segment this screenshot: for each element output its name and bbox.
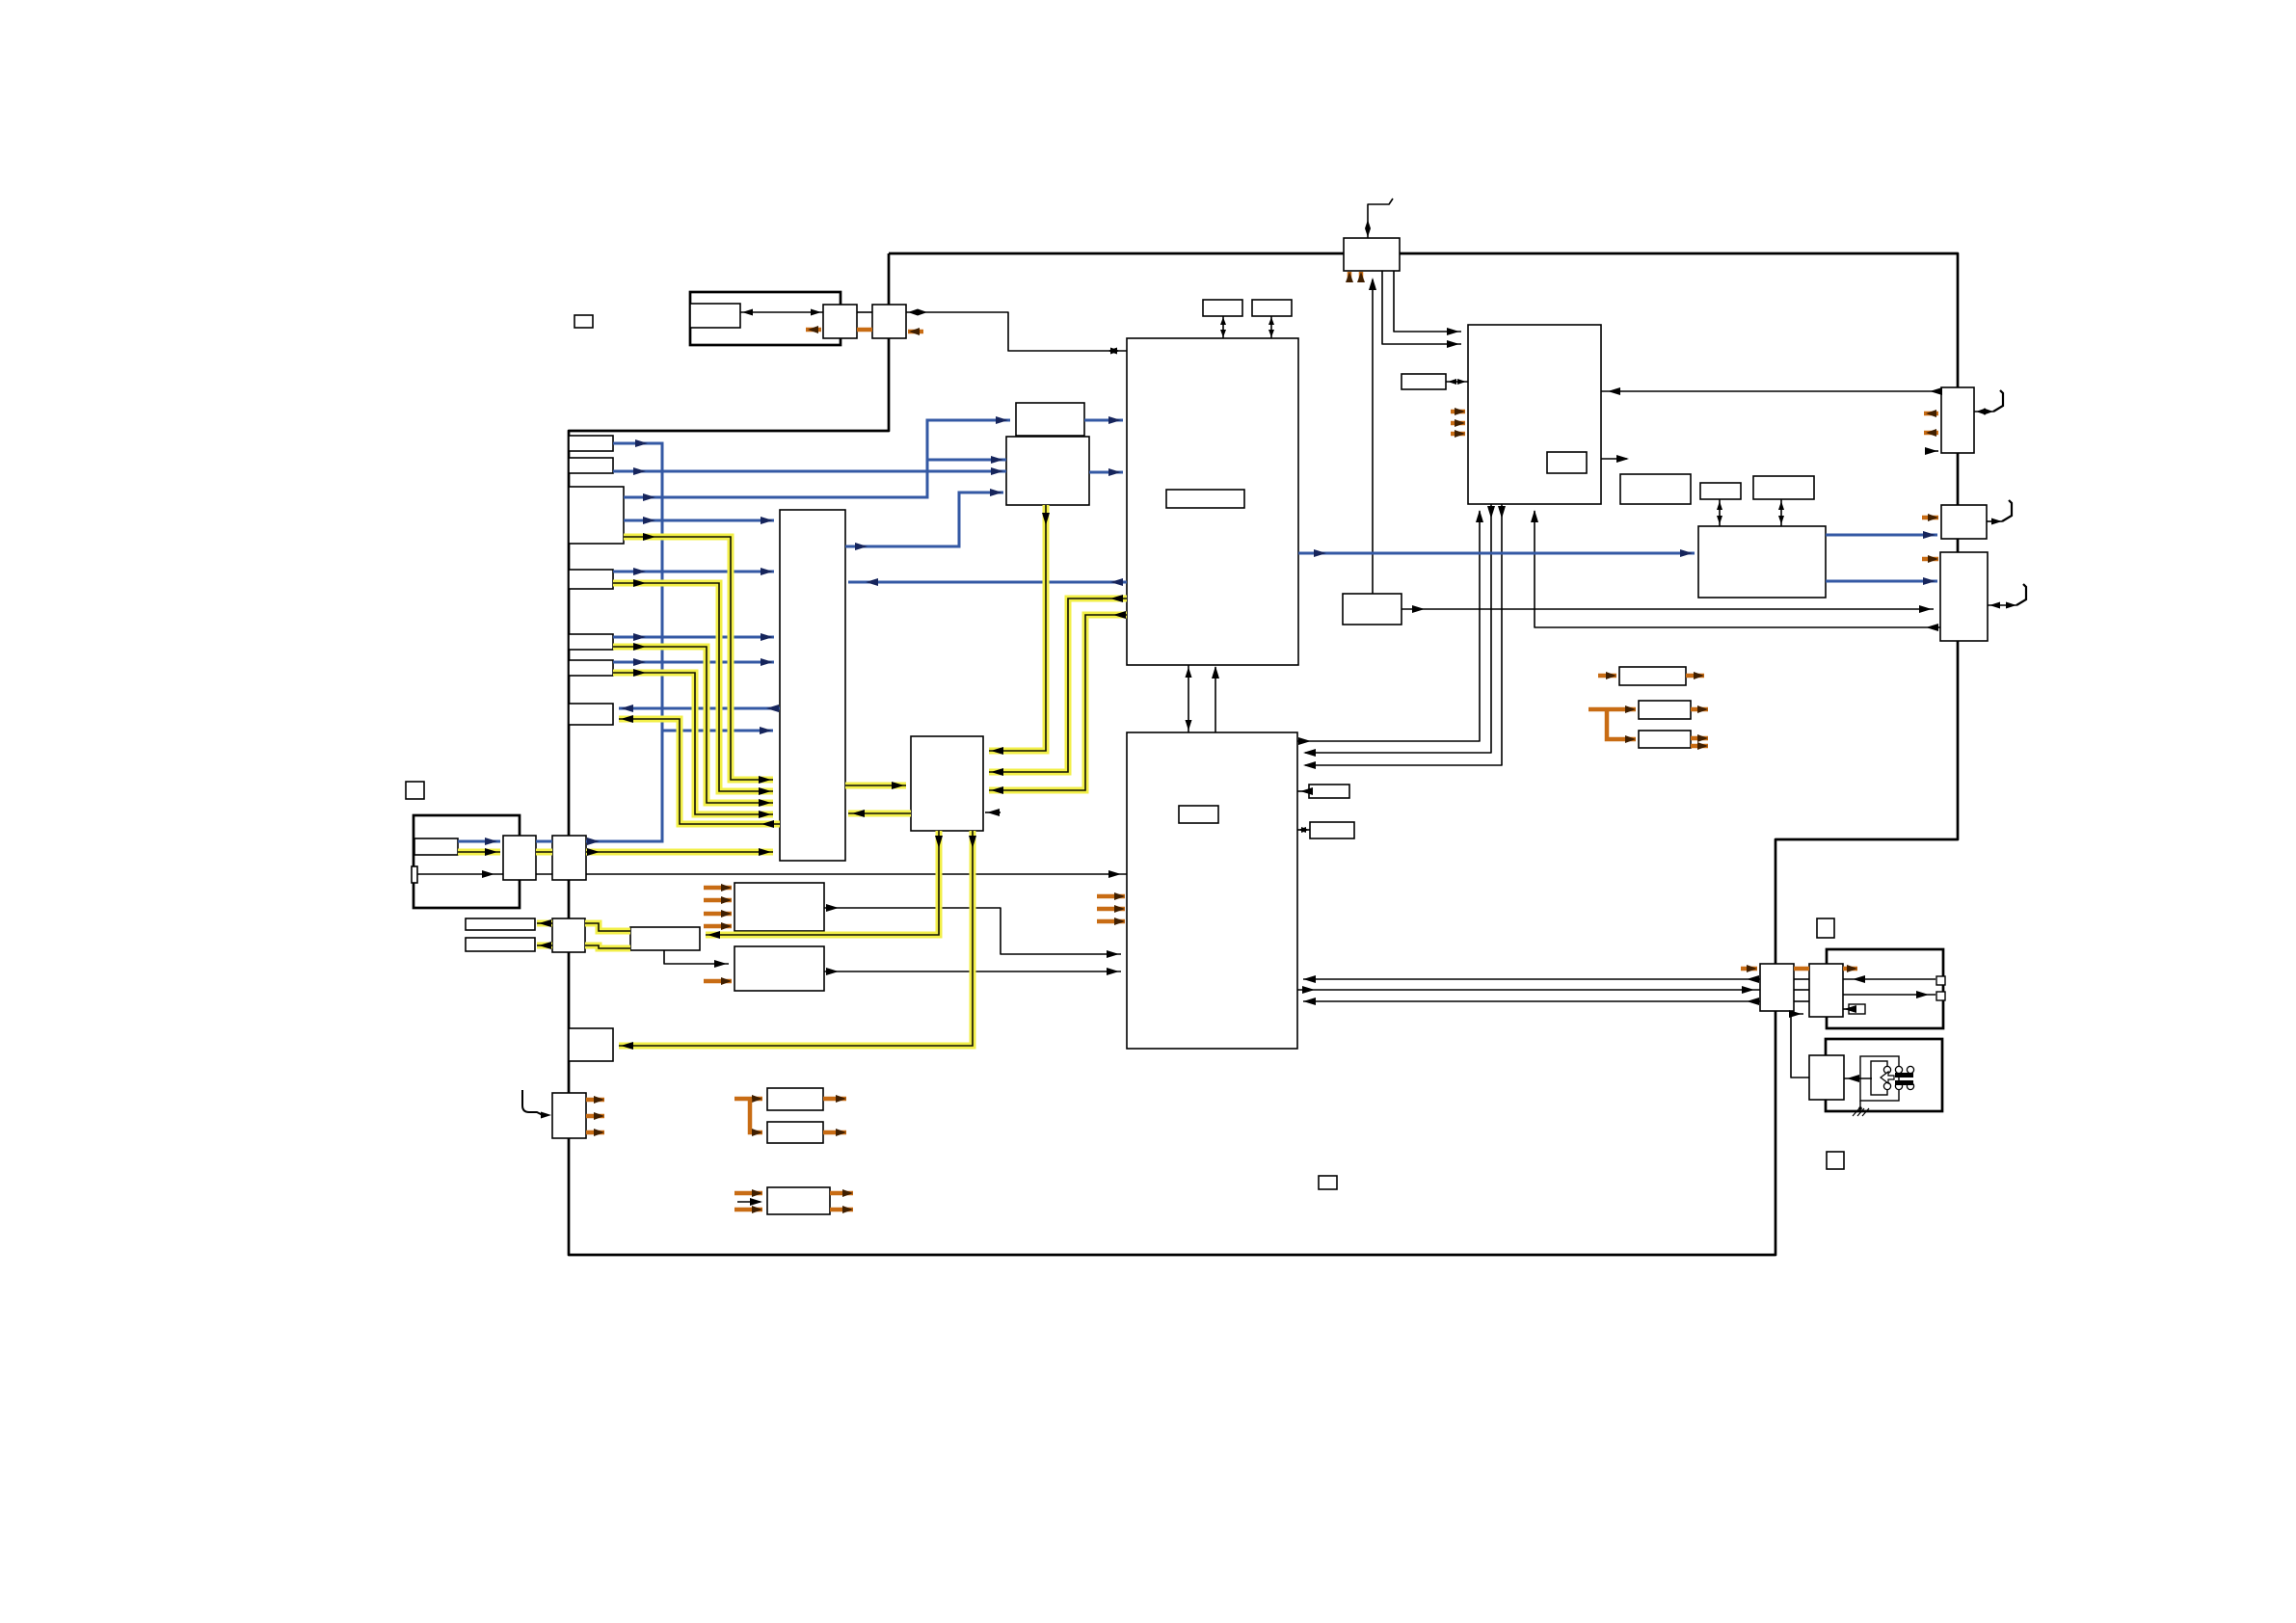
wire G antenna — [1365, 199, 1393, 238]
box T regulator — [1343, 594, 1402, 625]
page ref sq T1 — [574, 315, 593, 328]
loader assembly box — [690, 292, 841, 345]
wire V3 to W dbl — [1778, 499, 1784, 526]
wire K5 to sq2 — [1843, 991, 1936, 998]
regulator U1 — [1619, 667, 1686, 685]
front panel assembly box — [414, 815, 520, 908]
wire H to S riser3 — [1303, 504, 1506, 769]
connector A2 — [569, 458, 613, 473]
connector K2 — [1941, 505, 1987, 539]
connector A1 — [569, 436, 613, 451]
wire S to K4 line2 — [1297, 986, 1760, 994]
relay contacts — [1883, 1066, 1913, 1089]
wire S-R2 dbl link — [1297, 827, 1310, 833]
blue W to K3 — [1826, 577, 1937, 585]
power PS3 out2 — [830, 1206, 853, 1213]
front panel inner board — [414, 838, 458, 855]
blue E to Q — [1084, 416, 1123, 424]
terminal sq2 — [1936, 992, 1945, 1000]
regulator U3 — [1639, 731, 1691, 748]
blue M to F riser — [845, 489, 1003, 550]
yellow A5 riser to M — [613, 643, 773, 807]
yellow X2 to X2a — [537, 919, 552, 927]
wire C to Q dbl — [1220, 316, 1226, 338]
power K4-K5 — [1794, 967, 1809, 971]
wire S to Q up — [1212, 666, 1219, 732]
box E — [1016, 403, 1084, 436]
connector X3 — [569, 1028, 613, 1061]
wire loader to A — [740, 309, 823, 316]
blue Q to M — [848, 578, 1127, 586]
power K5 out — [1843, 965, 1857, 972]
connector A4 — [569, 570, 613, 589]
relay capacitor bars — [1895, 1073, 1913, 1085]
blue X0b-X1 gap — [536, 840, 552, 843]
yellow Q riser1 to P — [989, 595, 1127, 776]
connector A — [823, 305, 857, 338]
wire K4-K5 link3 — [1794, 1000, 1809, 1002]
IC Z1 eeprom — [734, 883, 824, 931]
connector A7 — [569, 704, 613, 725]
box R2 — [1310, 822, 1354, 838]
loader inner board — [690, 304, 740, 328]
wire K4-K5 link1 — [1794, 978, 1809, 980]
blue Q to W long — [1298, 549, 1695, 557]
connector G power-in — [1344, 238, 1400, 271]
terminal stub box — [1849, 1004, 1865, 1014]
power U1 in — [1598, 672, 1616, 679]
wire G to H lower — [1382, 271, 1461, 348]
relay outer — [1860, 1056, 1899, 1101]
blue A3 to M — [624, 517, 774, 524]
hook at X4 — [522, 1090, 551, 1119]
wire eeprom Z1 to video-proc — [824, 904, 1121, 958]
connector K4 — [1760, 964, 1794, 1011]
wire Q bottom to S dbl — [1186, 665, 1192, 732]
box V2 — [1700, 483, 1741, 499]
wire relay to K6 — [1844, 1075, 1872, 1082]
box V1 — [1620, 474, 1691, 504]
blue A4 to M — [613, 568, 774, 575]
ac inlet unit box — [1826, 1039, 1942, 1111]
wire K4-K5 link2 — [1794, 989, 1809, 991]
IC P audio amp — [911, 736, 983, 831]
regulator U2 — [1639, 701, 1691, 719]
regulator PS3 — [767, 1187, 830, 1214]
box V3 — [1753, 476, 1814, 499]
label Q — [1166, 490, 1244, 508]
power stubs H left — [1451, 408, 1465, 438]
page ref sq T4 — [1827, 1152, 1844, 1169]
blue X1 input — [458, 838, 500, 845]
blue bus A1/X1 riser to M — [586, 439, 773, 845]
box C flash — [1203, 300, 1242, 316]
yellow A3 riser to M — [624, 533, 773, 784]
box R1 — [1309, 785, 1349, 798]
wire vertical G to T — [1369, 278, 1376, 594]
power stubs S left — [1097, 892, 1125, 925]
wire S-R1 link — [1297, 787, 1313, 795]
yellow P riser to Y1 — [706, 831, 943, 939]
box I xtal — [1402, 374, 1446, 389]
wire K conn stub in — [1925, 447, 1938, 455]
relay hollow arrow — [1881, 1072, 1894, 1083]
power supply unit box — [1827, 949, 1943, 1028]
connector A3 — [569, 487, 624, 544]
IC W hdmi switch — [1698, 526, 1826, 598]
blue F to Q — [1089, 468, 1123, 476]
label S — [1179, 806, 1218, 823]
power stub A-B — [857, 328, 872, 333]
power U1 out — [1686, 672, 1704, 679]
relay inner — [1871, 1061, 1887, 1095]
power PS3 in3 — [734, 1206, 762, 1213]
connector A6 — [569, 660, 613, 676]
power stub K2 — [1922, 514, 1938, 521]
box F sdram — [1006, 437, 1089, 505]
IC S video proc — [1127, 732, 1297, 1049]
wire PS3 in2 — [737, 1198, 762, 1206]
power PS3 out1 — [830, 1189, 853, 1197]
power stub K3 — [1922, 555, 1938, 563]
connector A5 — [569, 634, 613, 650]
yellow X2 to X2b — [537, 942, 552, 949]
power stub A left — [806, 326, 821, 333]
power stub B right — [908, 328, 923, 335]
power U3 out1 — [1691, 734, 1708, 742]
power PS2 out — [823, 1129, 846, 1136]
power stubs G bottom — [1346, 272, 1365, 282]
wire S to K4 line1 — [1303, 975, 1760, 983]
main board outline — [569, 253, 1958, 1255]
regulator PS2 — [767, 1122, 823, 1143]
box X2a — [466, 918, 535, 930]
yellow X2-Y1 link dn — [585, 945, 630, 948]
yellow F riser to P — [989, 505, 1050, 755]
blue M to A7 return — [619, 705, 780, 712]
wire D to Q dbl — [1268, 316, 1274, 338]
IC Q main cpu — [1127, 338, 1298, 665]
wire T to K3 (y632) — [1402, 605, 1934, 613]
wire keypad Y1 to Z2 — [664, 950, 729, 968]
power U2 out — [1691, 705, 1708, 713]
wire G to H upper — [1394, 271, 1461, 335]
yellow A4 riser to M — [613, 579, 773, 795]
IC M input selector — [780, 510, 845, 861]
wire A to B — [857, 311, 872, 313]
wire S to K4 line3 — [1303, 998, 1760, 1005]
page ref sq T3 — [1817, 918, 1834, 938]
connector B — [872, 305, 906, 338]
blue A2 to F — [613, 467, 1006, 475]
power PS3 in1 — [734, 1189, 762, 1197]
power PS1 in + elbow PS2 — [734, 1095, 762, 1136]
wire B to Q — [906, 309, 1127, 355]
yellow X2-Y1 link up — [585, 923, 630, 931]
power stubs K right conn — [1924, 410, 1938, 437]
wire K5 to sq1 — [1843, 975, 1936, 983]
label H — [1547, 452, 1587, 473]
regulator PS1 — [767, 1088, 823, 1110]
yellow M to P — [845, 782, 906, 789]
wire I to H dbl — [1446, 379, 1468, 385]
connector X2 av-in — [552, 918, 585, 952]
power stub Z2 — [704, 977, 732, 985]
connector K5 — [1809, 964, 1843, 1017]
power stubs Z1 — [704, 884, 732, 930]
connector K6 — [1809, 1055, 1844, 1100]
blue A5 to M — [613, 633, 774, 641]
hook at K2 — [1987, 500, 2012, 525]
box D ddr — [1252, 300, 1292, 316]
power PS1 out — [823, 1095, 846, 1103]
yellow X0b-X1 gap — [536, 849, 552, 856]
yellow P riser to X3 — [619, 831, 976, 1050]
wire H to S riser2 — [1303, 504, 1495, 757]
yellow P to M return — [848, 810, 911, 817]
wire V2 to W dbl — [1717, 499, 1722, 526]
connector K — [1941, 387, 1974, 453]
IC H hdmi tx — [1468, 325, 1601, 504]
wire K to H (y406) — [1601, 387, 1942, 395]
blue A6 to M — [613, 658, 774, 666]
connector X0b — [503, 836, 536, 880]
wire P stub in — [985, 809, 1001, 816]
wire H out stub — [1601, 455, 1629, 463]
yellow M to A7 return — [619, 715, 780, 828]
terminal sq1 — [1936, 976, 1945, 985]
yellow front to X1 — [458, 848, 500, 856]
IC Z2 reset — [734, 946, 824, 991]
power U3 out2 — [1691, 742, 1708, 750]
wire S to H riser1 — [1297, 510, 1483, 745]
wire stub to K5 — [1843, 1005, 1856, 1013]
power U2 in + elbow U3 — [1589, 705, 1636, 743]
relay box Y1 — [630, 927, 700, 950]
blue W to K2 — [1826, 531, 1937, 539]
page ref sq T2 — [406, 782, 424, 799]
ground symbol — [1853, 1101, 1869, 1116]
power X4 out — [586, 1096, 604, 1136]
wire reset Z2 to video-proc — [824, 968, 1121, 975]
connector X1 tuner-in — [552, 836, 586, 880]
box X2b — [466, 938, 535, 951]
power K4 in — [1741, 965, 1757, 972]
hook at K — [1974, 390, 2003, 415]
yellow Q riser2 to P — [989, 611, 1127, 794]
yellow X1 to M — [586, 848, 773, 856]
connector K3 — [1940, 552, 1988, 641]
wire K6 to K5 — [1789, 1010, 1809, 1078]
wire front-sensor to video-proc (y907) — [417, 870, 1127, 878]
front sensor connector — [412, 866, 417, 883]
hook at K3 — [1988, 584, 2026, 609]
connector X4 power — [552, 1093, 586, 1138]
page ref sq T5 — [1319, 1176, 1337, 1189]
blue A3 bus to E/F — [624, 416, 1010, 501]
yellow A6 riser to M — [613, 669, 773, 818]
wire K3 to H riser — [1531, 510, 1940, 631]
